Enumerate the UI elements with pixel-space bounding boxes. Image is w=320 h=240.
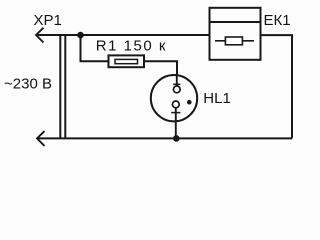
svg-text:ЕК1: ЕК1: [264, 12, 291, 29]
svg-text:R1 150 к: R1 150 к: [96, 37, 167, 54]
svg-text:~230 В: ~230 В: [4, 75, 52, 92]
svg-text:HL1: HL1: [203, 90, 231, 107]
svg-text:ХР1: ХР1: [34, 12, 62, 29]
